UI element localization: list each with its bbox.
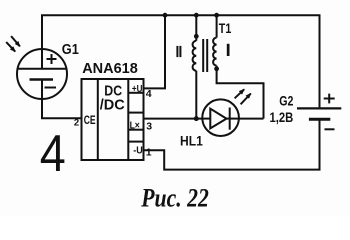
battery G2 short plate (minus) (309, 118, 330, 121)
wire winding I top lead (216, 15, 218, 37)
wire top rail (G1 plus to G2 plus) (42, 15, 320, 107)
wire pin4 +U to top rail (144, 15, 166, 88)
svg-text:4: 4 (40, 125, 66, 183)
LED HL1 cathode bar (229, 108, 231, 130)
label winding I (227, 44, 230, 56)
U1 pin box divider under +U (128, 92, 143, 94)
solar cell G1 circle (17, 49, 67, 99)
label winding II (176, 46, 181, 57)
transformer T1 core line right (206, 39, 208, 72)
wire winding II bottom lead (195, 71, 197, 119)
svg-text:CE: CE (84, 113, 96, 127)
LED HL1 anode wire inside (203, 118, 211, 120)
svg-text:L×: L× (130, 120, 140, 132)
G1 top stub (41, 50, 43, 69)
svg-text:-U: -U (133, 144, 143, 156)
svg-text:1,2В: 1,2В (270, 110, 294, 125)
wire G1 minus to CE pin 2 (42, 99, 82, 119)
G1 long plate (19, 68, 66, 70)
svg-text:HL1: HL1 (180, 133, 203, 148)
U1 pin box divider above Lx (128, 112, 143, 114)
svg-text:1: 1 (146, 147, 152, 159)
G2 minus sign (325, 128, 335, 130)
wire pin3 Lx to LED anode (144, 118, 203, 120)
junction dot pin4 riser on rail (163, 13, 168, 18)
light arrow A2 onto G1 (6, 42, 15, 52)
wire pin1 -U to bottom rail to G2 minus (144, 120, 320, 170)
svg-text:G2: G2 (279, 94, 293, 109)
junction dot winding I on rail (214, 13, 219, 18)
G2 plus sign (324, 94, 335, 104)
wire HL1 cathode lead (239, 118, 264, 120)
U1 inner divider right (127, 79, 129, 160)
svg-text:ANA618: ANA618 (82, 61, 138, 77)
polarity dot winding II (194, 34, 199, 39)
LED HL1 circle (202, 99, 239, 136)
LED light arrow B1 (235, 89, 245, 98)
svg-text:T1: T1 (219, 21, 232, 36)
op-amp U1 ANA618 DC/DC converter box (82, 79, 144, 160)
wire winding I bottom lead to HL1 cathode (217, 66, 264, 119)
svg-text:4: 4 (146, 88, 152, 100)
svg-text:3: 3 (146, 121, 152, 133)
transformer T1 core line left (202, 39, 204, 72)
junction dot winding II on rail (194, 13, 199, 18)
wire winding II top lead (195, 15, 197, 41)
light arrow A1 onto G1 (11, 36, 20, 46)
svg-text:G1: G1 (62, 42, 79, 58)
U1 pin box divider above -U (128, 141, 143, 143)
battery G2 long plate (plus) (297, 107, 341, 109)
svg-text:/DC: /DC (100, 97, 125, 114)
transformer T1 winding II (193, 41, 197, 71)
polarity dot winding I (214, 66, 219, 71)
junction dot node Lx / winding II / HL1 (194, 116, 199, 121)
transformer T1 winding I (213, 38, 216, 66)
U1 pin box divider below Lx (128, 129, 143, 131)
LED HL1 triangle (210, 109, 226, 129)
LED HL1 inner wire right (227, 118, 239, 120)
svg-text:Рис. 22: Рис. 22 (140, 183, 208, 212)
svg-text:2: 2 (74, 118, 79, 129)
svg-text:+U: +U (132, 83, 143, 95)
G1 minus sign (45, 87, 57, 89)
G1 plus sign (47, 54, 57, 64)
G1 short plate (30, 78, 54, 81)
G1 bottom stub (41, 80, 43, 99)
LED light arrow B2 (241, 94, 251, 105)
U1 inner divider left (97, 79, 99, 160)
